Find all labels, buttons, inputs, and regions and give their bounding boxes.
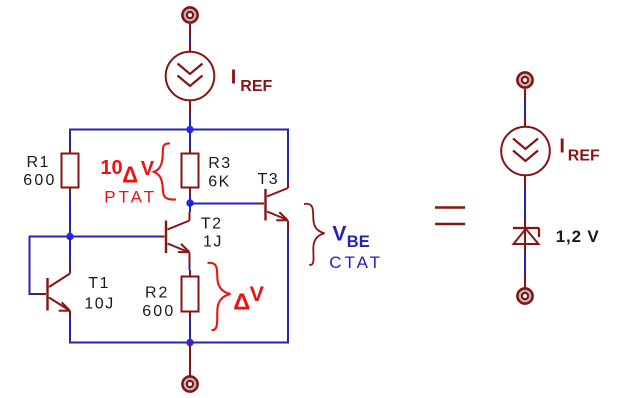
svg-text:1J: 1J <box>203 233 223 250</box>
wire terminal P3 to current source I2 <box>524 89 526 127</box>
wire base rail (T1/T2 bases) <box>29 236 160 238</box>
terminal P4 (bottom right circuit) <box>517 288 532 303</box>
svg-text:Δ: Δ <box>233 289 250 315</box>
wire T1 emitter to bottom rail <box>69 318 71 343</box>
current source I2 (IREF) <box>501 127 550 176</box>
svg-text:6K: 6K <box>208 173 231 190</box>
resistor R2 <box>182 277 199 312</box>
svg-text:V: V <box>141 158 155 180</box>
brace VBE (dark red) <box>304 204 325 265</box>
label IREF (left) <box>231 66 273 95</box>
wire loop to T1 base <box>29 236 47 295</box>
label T2 1J <box>201 215 223 250</box>
junction node top rail <box>186 126 193 133</box>
svg-text:I: I <box>231 66 237 88</box>
label T1 10J <box>84 275 114 312</box>
annotation 10dV PTAT <box>100 157 157 207</box>
label R1 600 <box>23 154 56 189</box>
svg-text:T1: T1 <box>88 275 110 292</box>
resistor R3 <box>182 154 199 188</box>
wire node to T3 base <box>190 203 264 205</box>
terminal P1 (top left circuit) <box>182 7 197 22</box>
terminal P3 (top right circuit) <box>517 72 532 87</box>
svg-text:600: 600 <box>23 172 56 189</box>
wire bottom rail <box>69 342 289 344</box>
svg-text:R3: R3 <box>208 155 231 172</box>
wire R1 to base node <box>69 188 71 237</box>
wire T3 emitter to bottom rail <box>287 232 289 343</box>
svg-text:PTAT: PTAT <box>104 187 157 206</box>
svg-text:BE: BE <box>347 233 370 251</box>
junction node bottom rail <box>186 339 193 346</box>
svg-text:600: 600 <box>142 303 175 320</box>
svg-text:CTAT: CTAT <box>329 253 383 272</box>
brace dV (red, embracing R2) <box>208 263 231 330</box>
svg-text:R2: R2 <box>145 284 169 301</box>
annotation dV <box>233 282 264 315</box>
brace PTAT (red, embracing R3) <box>154 143 176 199</box>
wire current source I2 to zener D1 <box>524 176 526 229</box>
current source I1 (IREF) <box>166 52 215 101</box>
wire current source I1 to top rail <box>189 101 191 130</box>
svg-text:V: V <box>250 282 265 306</box>
svg-text:V: V <box>332 222 346 245</box>
label R3 6K <box>208 155 231 190</box>
wire T3 collector to top rail <box>287 129 289 182</box>
label R2 600 <box>142 284 175 320</box>
terminal P2 (bottom left circuit) <box>182 376 197 391</box>
wire terminal P1 to current source I1 <box>189 24 191 52</box>
transistor T2 <box>159 212 190 263</box>
wire T1 collector to base rail <box>69 237 71 274</box>
equals sign <box>435 208 465 225</box>
svg-text:10: 10 <box>100 157 122 179</box>
junction node base rail <box>66 233 73 240</box>
zener diode D1 <box>513 228 539 251</box>
transistor T1 <box>48 274 71 319</box>
svg-text:1,2 V: 1,2 V <box>556 227 600 246</box>
label VBE CTAT (blue) <box>329 222 383 272</box>
wire R3 to node below <box>189 188 191 204</box>
wire top rail to R1 <box>69 129 71 155</box>
wire zener D1 to terminal P4 <box>524 251 526 288</box>
wire bottom rail to terminal P2 <box>189 343 191 377</box>
wire node to T2 collector <box>189 203 191 212</box>
wire R2 to bottom rail <box>189 312 191 343</box>
junction node below R3 <box>186 199 193 206</box>
svg-text:10J: 10J <box>84 295 114 312</box>
svg-text:REF: REF <box>568 148 600 165</box>
svg-text:T2: T2 <box>201 215 223 232</box>
resistor R1 <box>62 154 79 188</box>
transistor T3 <box>266 181 289 232</box>
svg-text:Δ: Δ <box>122 161 138 187</box>
svg-text:R1: R1 <box>27 154 50 171</box>
svg-text:REF: REF <box>240 78 272 95</box>
wire T2 emitter to R2 <box>189 263 192 277</box>
wire top rail <box>69 129 288 131</box>
svg-text:T3: T3 <box>258 171 280 188</box>
label IREF (right) <box>559 136 600 165</box>
wire top rail to R3 <box>189 131 191 154</box>
svg-text:I: I <box>559 136 565 158</box>
